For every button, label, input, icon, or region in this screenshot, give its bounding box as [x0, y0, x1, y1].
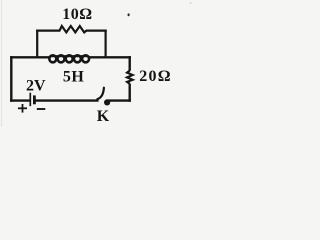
svg-text:10Ω: 10Ω [62, 6, 92, 23]
resistor R1 10Ω (top branch zigzag with leads) [36, 26, 107, 32]
wire: left vertical rail [10, 56, 12, 102]
battery plus sign [18, 104, 27, 113]
battery V1 2V: short negative plate [33, 95, 36, 104]
node: parallel branch right junction stub [104, 30, 106, 59]
node: parallel branch left junction stub [36, 30, 38, 59]
wire: bottom rail right segment (dot to right corner) [108, 99, 131, 101]
wire: right vertical rail lower segment [128, 84, 130, 102]
wire: top rail right segment [88, 56, 131, 58]
wire: top rail left segment [10, 56, 51, 58]
wire: bottom rail left segment (to battery) [10, 99, 30, 101]
svg-text:20Ω: 20Ω [139, 68, 171, 85]
faint page edge line [1, 0, 3, 127]
svg-text:5H: 5H [63, 68, 85, 85]
ink speck artifact [128, 13, 130, 16]
inductor L1 5H (five loops on top rail) [49, 55, 89, 62]
battery V1 2V: long positive plate [29, 93, 31, 106]
faint corner speck [190, 2, 192, 4]
switch K contact dot [104, 99, 110, 105]
wire: right vertical rail upper segment [128, 56, 130, 71]
background paper [0, 0, 193, 127]
resistor R2 20Ω (vertical zigzag) [127, 71, 133, 84]
wire: bottom rail middle segment (battery to switch) [35, 99, 99, 101]
svg-text:K: K [97, 108, 110, 125]
battery minus sign [37, 108, 46, 110]
svg-text:2V: 2V [26, 78, 46, 95]
switch K lever (open blade) [97, 88, 104, 100]
